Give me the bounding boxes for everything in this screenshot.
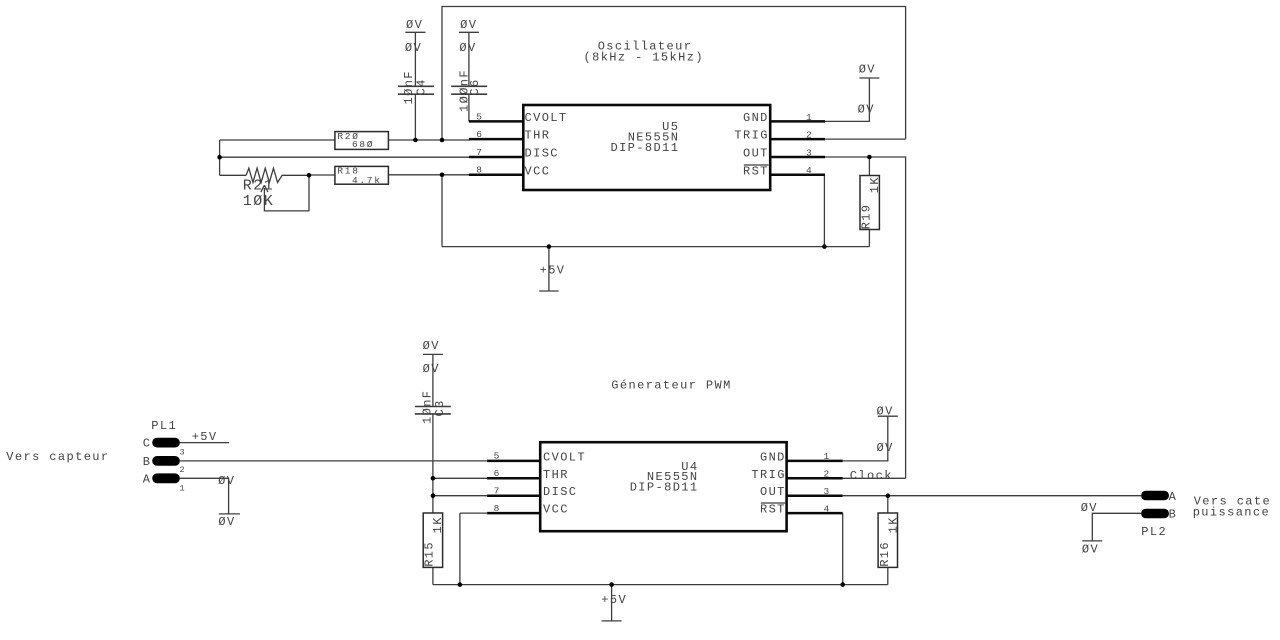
svg-text:B: B [1169,507,1178,521]
svg-text:3: 3 [823,486,830,497]
svg-text:5: 5 [494,451,501,462]
svg-text:8: 8 [494,503,501,514]
svg-text:VCC: VCC [525,164,551,178]
svg-text:DIP-8D11: DIP-8D11 [610,141,679,155]
svg-text:7: 7 [476,147,483,158]
svg-text:1: 1 [823,451,830,462]
svg-text:ØV: ØV [459,41,476,55]
svg-text:C: C [143,437,152,451]
svg-text:1ØK: 1ØK [243,193,275,210]
svg-text:+5V: +5V [192,430,218,444]
svg-text:OUT: OUT [743,147,769,161]
svg-text:ØV: ØV [876,441,893,455]
svg-text:RST: RST [760,503,786,517]
svg-text:ØV: ØV [858,103,875,117]
svg-text:68Ø: 68Ø [352,139,374,150]
svg-text:ØV: ØV [423,339,440,353]
svg-text:C3: C3 [433,399,447,416]
svg-text:DISC: DISC [525,147,559,161]
svg-text:3: 3 [806,147,813,158]
svg-text:ØV: ØV [218,474,235,488]
svg-text:RST: RST [743,165,769,179]
svg-text:ØV: ØV [405,41,422,55]
svg-text:5: 5 [476,111,483,122]
svg-text:CVOLT: CVOLT [525,111,568,125]
svg-text:puissance: puissance [1193,506,1270,520]
svg-text:1: 1 [180,483,186,493]
svg-text:6: 6 [494,468,501,479]
svg-text:7: 7 [494,485,501,496]
svg-text:DIP-8D11: DIP-8D11 [630,480,699,494]
svg-text:ØV: ØV [423,362,440,376]
svg-text:ØV: ØV [859,62,876,76]
svg-text:6: 6 [476,129,483,140]
svg-text:DISC: DISC [543,485,577,499]
svg-text:+5V: +5V [601,593,627,607]
svg-text:C6: C6 [468,78,482,95]
svg-text:VCC: VCC [543,503,569,517]
svg-text:+5V: +5V [540,264,566,278]
svg-text:1K: 1K [431,516,445,533]
svg-text:Clock: Clock [850,469,893,483]
svg-text:Vers capteur: Vers capteur [6,450,109,464]
svg-text:ØV: ØV [460,18,477,32]
svg-text:ØV: ØV [1081,501,1098,515]
svg-text:A: A [143,472,152,486]
svg-text:OUT: OUT [760,485,786,499]
svg-text:4: 4 [806,165,813,176]
svg-text:ØV: ØV [218,515,235,529]
svg-text:2: 2 [806,130,813,141]
svg-text:1K: 1K [868,176,882,193]
svg-text:1: 1 [806,112,813,123]
svg-text:B: B [143,455,152,469]
svg-text:2: 2 [823,469,830,480]
svg-text:3: 3 [180,447,186,457]
svg-text:1K: 1K [887,516,901,533]
svg-text:PL2: PL2 [1141,525,1167,539]
svg-text:Génerateur PWM: Génerateur PWM [611,379,731,393]
svg-text:CVOLT: CVOLT [543,450,586,464]
svg-text:ØV: ØV [406,18,423,32]
svg-text:GND: GND [743,111,769,125]
svg-text:ØV: ØV [1082,542,1099,556]
svg-text:PL1: PL1 [151,419,177,433]
svg-text:R16: R16 [878,541,892,567]
svg-text:TRIG: TRIG [751,468,785,482]
svg-text:R15: R15 [423,541,437,567]
svg-text:TRIG: TRIG [734,129,768,143]
svg-text:THR: THR [543,468,569,482]
svg-text:A: A [1169,490,1178,504]
svg-text:4: 4 [823,503,830,514]
svg-text:C4: C4 [415,78,429,95]
svg-text:THR: THR [525,129,551,143]
svg-text:4.7k: 4.7k [352,175,382,186]
svg-text:2: 2 [180,465,186,475]
svg-text:8: 8 [476,165,483,176]
svg-text:ØV: ØV [876,405,893,419]
svg-text:GND: GND [760,450,786,464]
svg-text:(8kHz - 15kHz): (8kHz - 15kHz) [584,50,704,64]
svg-text:R19: R19 [860,204,874,230]
